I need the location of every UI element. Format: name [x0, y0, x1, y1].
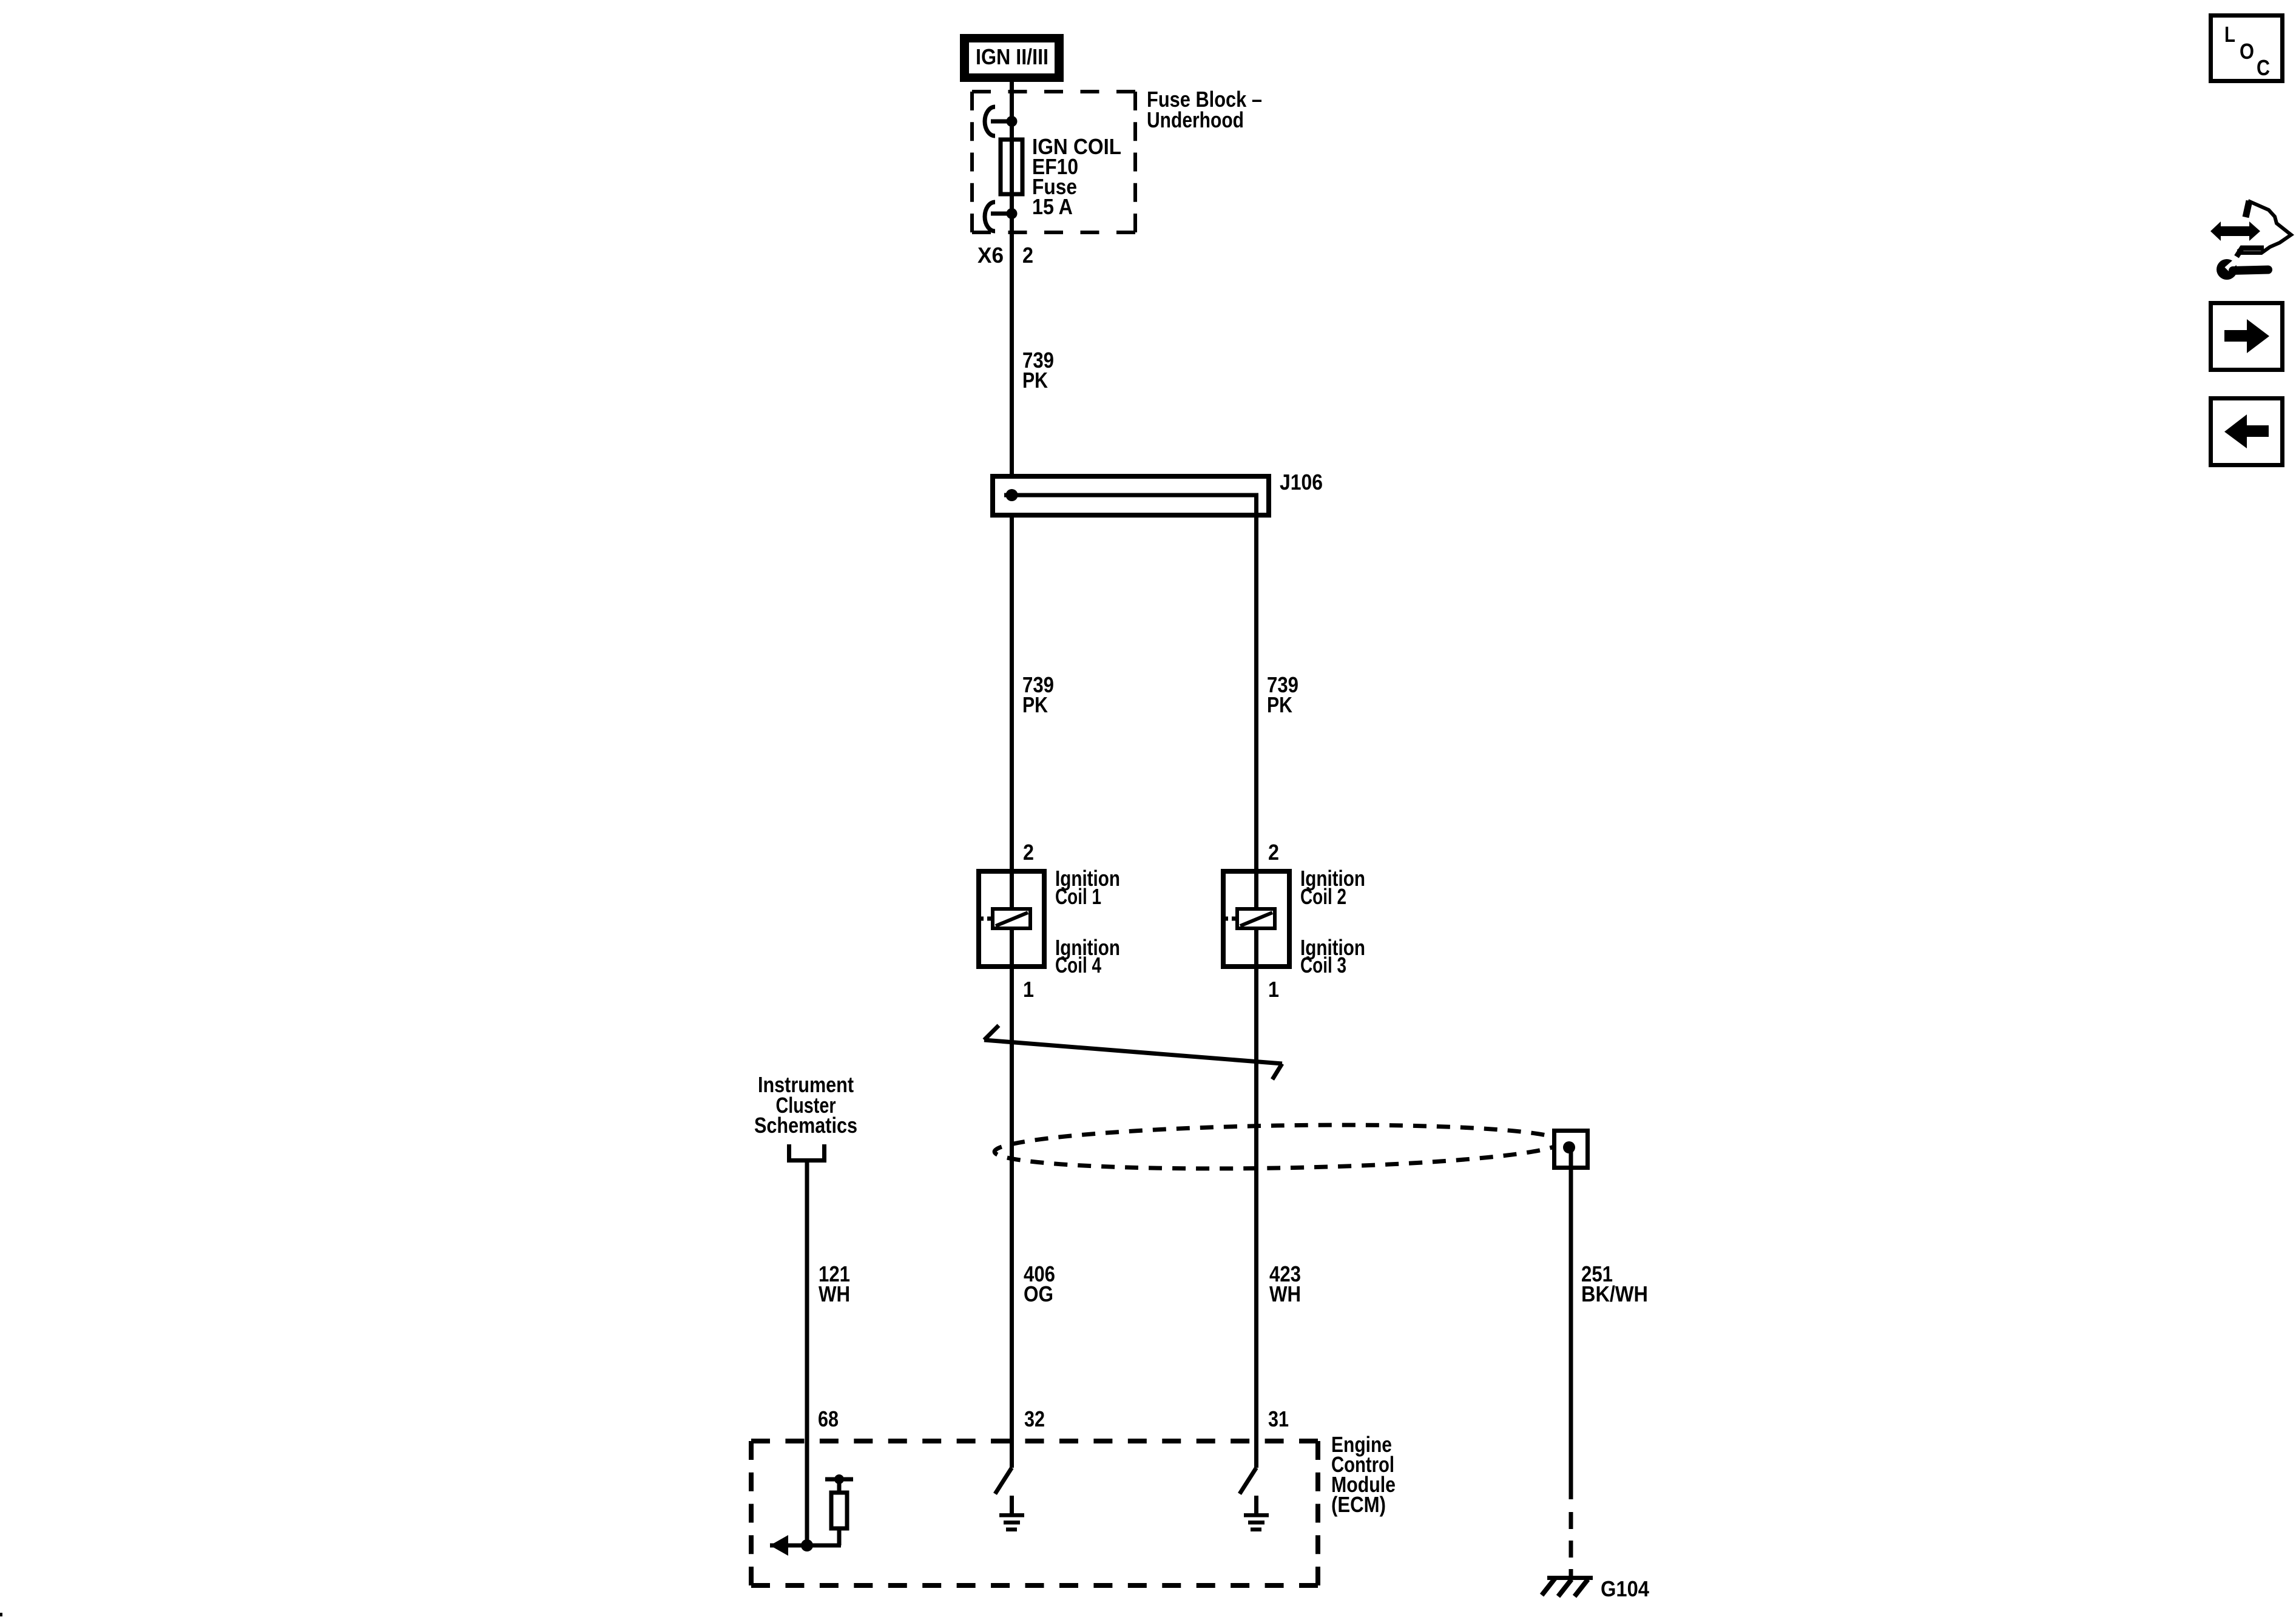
svg-text:C: C [2257, 55, 2270, 80]
svg-text:L: L [2224, 22, 2235, 47]
svg-text:2: 2 [1022, 243, 1033, 268]
svg-text:J106: J106 [1280, 470, 1323, 495]
harness crossing marker [984, 1025, 1282, 1079]
forward arrow box [2211, 303, 2283, 370]
fuse block label [1147, 87, 1262, 132]
diagnostic icon: double arrow, part outline, wrench [2210, 201, 2291, 280]
wire coil 1 pin 1 to ECM pin 32 [1010, 969, 1014, 1468]
ECM pin 32 internal lead and ground [995, 1468, 1024, 1531]
ignition coil 2 / coil 3 labels [1300, 866, 1365, 977]
wire 739 PK from IGN II/III through fuse to J106 [1010, 81, 1014, 476]
svg-text:31: 31 [1268, 1406, 1289, 1431]
svg-text:32: 32 [1024, 1406, 1045, 1431]
ignition coil 2/3 box [1223, 869, 1289, 969]
ECM dashed box [751, 1441, 1318, 1585]
svg-text:X6: X6 [977, 243, 1004, 268]
wire labels 121 WH [819, 1261, 850, 1306]
svg-text:Coil 1: Coil 1 [1055, 884, 1101, 909]
svg-text:O: O [2240, 39, 2254, 64]
svg-text:Underhood: Underhood [1147, 107, 1244, 132]
splice box with dot (251 takeout) [1555, 1131, 1588, 1168]
chassis ground G104 [1542, 1576, 1649, 1601]
svg-text:Coil 2: Coil 2 [1300, 884, 1346, 909]
connector clip bottom [985, 202, 1018, 231]
resistor inside ECM [825, 1474, 853, 1545]
svg-text:OG: OG [1024, 1281, 1053, 1306]
wire coil 2 pin 1 to ECM pin 31 [1254, 969, 1258, 1468]
instrument cluster schematics label [754, 1072, 857, 1138]
fuse IGN COIL EF10 15A [1001, 134, 1121, 219]
ignition coil 1/4 box [979, 869, 1044, 969]
back arrow box [2211, 399, 2283, 465]
wire 739 PK J106 to ignition coil 1 [1010, 515, 1014, 869]
svg-text:BK/WH: BK/WH [1581, 1281, 1648, 1306]
wire labels 406 OG [1024, 1261, 1055, 1306]
svg-text:Coil 4: Coil 4 [1055, 953, 1101, 977]
svg-text:(ECM): (ECM) [1331, 1492, 1386, 1517]
connector clip top [985, 107, 1018, 136]
svg-text:WH: WH [1269, 1281, 1301, 1306]
svg-text:PK: PK [1022, 692, 1048, 717]
ECM internal node for pin 68: arrow, junction, resistor [770, 1468, 841, 1556]
ECM label [1331, 1432, 1396, 1517]
off-page connector bracket [789, 1144, 825, 1161]
svg-text:Coil 3: Coil 3 [1300, 953, 1346, 977]
wire 251 BK/WH down from splice box [1569, 1150, 1573, 1577]
harness dashed ellipse [994, 1121, 1561, 1173]
svg-text:1: 1 [1023, 977, 1034, 1002]
svg-text:IGN II/III: IGN II/III [976, 44, 1048, 69]
wire labels 251 BK/WH [1581, 1261, 1648, 1306]
page corner mark [0, 1613, 2, 1616]
svg-text:G104: G104 [1601, 1576, 1649, 1601]
LOC legend box [2211, 16, 2283, 81]
fuse block dashed box [972, 92, 1135, 232]
wire label 739 PK middle left [1022, 672, 1054, 717]
svg-text:WH: WH [819, 1281, 850, 1306]
power tag IGN II/III [960, 34, 1064, 82]
connector pin labels X6 / 2 [977, 243, 1033, 268]
ignition coil 1 / coil 4 labels [1055, 866, 1120, 977]
splice pack J106 [993, 470, 1323, 515]
svg-text:PK: PK [1022, 368, 1048, 393]
svg-text:2: 2 [1023, 840, 1034, 865]
svg-text:68: 68 [818, 1406, 839, 1431]
wire labels 423 WH [1269, 1261, 1301, 1306]
wire 121 WH instrument cluster to ECM pin 68 [805, 1163, 809, 1545]
svg-text:PK: PK [1267, 692, 1292, 717]
ECM pin 31 internal lead and ground [1240, 1468, 1269, 1531]
wire 739 PK J106 to ignition coil 2 [1254, 495, 1258, 869]
wire label 739 PK middle right [1267, 672, 1298, 717]
svg-text:15 A: 15 A [1032, 194, 1073, 219]
svg-text:2: 2 [1268, 840, 1279, 865]
svg-text:1: 1 [1268, 977, 1279, 1002]
svg-text:Schematics: Schematics [754, 1113, 857, 1138]
wire label 739 PK upper [1022, 348, 1054, 393]
